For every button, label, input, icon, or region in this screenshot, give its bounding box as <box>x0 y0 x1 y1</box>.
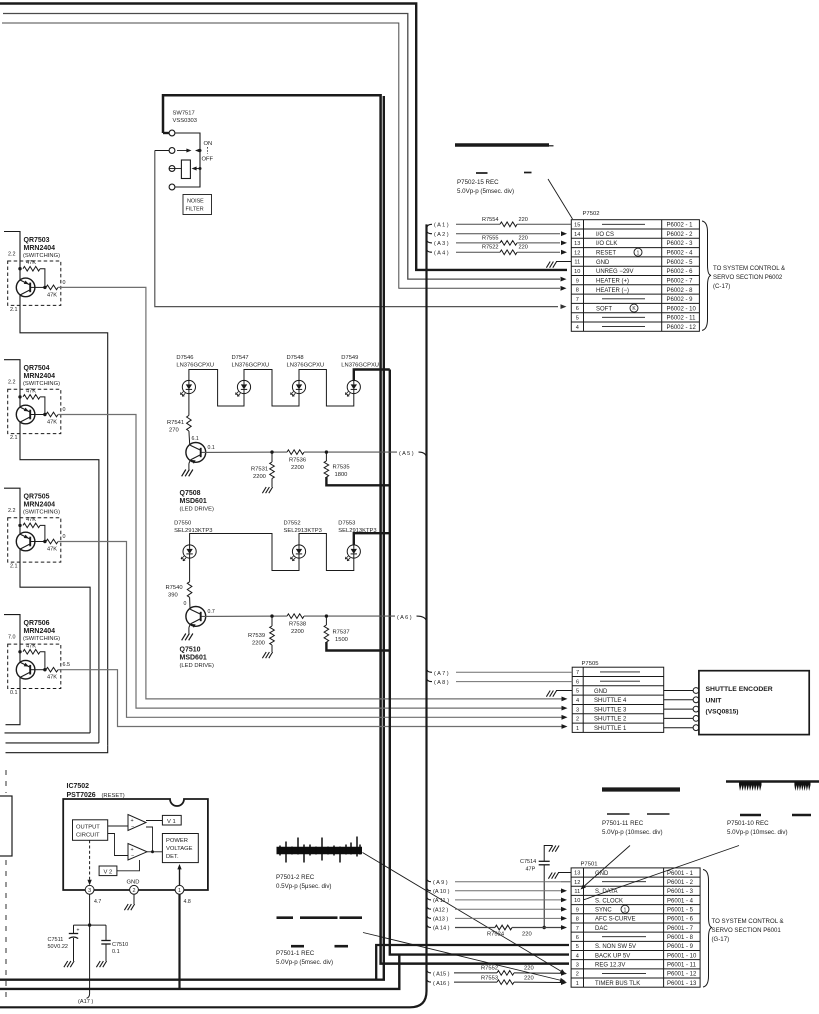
waveform P7501-10 REC trace <box>726 780 819 783</box>
wire QR7503 route exit left <box>6 745 108 752</box>
ground at IC pin 2 <box>133 894 135 904</box>
svg-text:TO SYSTEM CONTROL &: TO SYSTEM CONTROL & <box>713 265 785 272</box>
node A10 wire to P7501 <box>427 886 432 891</box>
svg-text:2200: 2200 <box>252 641 265 647</box>
svg-text:HEATER (+): HEATER (+) <box>596 278 629 284</box>
svg-text:4: 4 <box>576 698 579 704</box>
svg-text:5: 5 <box>576 944 579 950</box>
partial component box at left edge <box>0 796 12 856</box>
pin 2 <box>130 885 139 894</box>
svg-text:P6001 - 9: P6001 - 9 <box>667 944 694 950</box>
svg-text:D7552: D7552 <box>284 521 301 527</box>
resistor R7541 270 <box>188 394 190 416</box>
svg-text:4.8: 4.8 <box>184 899 191 905</box>
svg-text:GND: GND <box>127 880 140 886</box>
svg-text:( A 4 ): ( A 4 ) <box>434 250 449 256</box>
svg-text:220: 220 <box>519 245 528 251</box>
svg-text:S. CLOCK: S. CLOCK <box>595 898 623 904</box>
svg-text:47K: 47K <box>26 517 36 523</box>
svg-text:OFF: OFF <box>202 157 214 163</box>
svg-text:0.1: 0.1 <box>112 949 120 955</box>
svg-text:P7505: P7505 <box>582 661 600 667</box>
svg-text:GND: GND <box>596 260 610 266</box>
svg-text:I/O CLK: I/O CLK <box>596 241 617 247</box>
svg-text:0: 0 <box>63 407 66 413</box>
svg-text:D7546: D7546 <box>176 355 193 361</box>
transistor QR7504 symbol <box>16 405 35 424</box>
svg-text:10: 10 <box>574 898 580 904</box>
switch body <box>181 160 190 179</box>
svg-text:P6001 - 12: P6001 - 12 <box>667 972 697 978</box>
svg-text:MSD601: MSD601 <box>180 498 207 505</box>
node A3 wire to P7502 <box>427 239 433 243</box>
op-amp comparator 2 <box>128 844 147 861</box>
svg-text:LN376GCPXU: LN376GCPXU <box>232 363 270 369</box>
pin symbol RESET circled 1 <box>634 248 642 256</box>
resistor 47K base QR7504 <box>18 395 21 398</box>
svg-text:5.0Vp-p (5msec. div): 5.0Vp-p (5msec. div) <box>457 188 514 195</box>
svg-text:V 1: V 1 <box>167 819 176 825</box>
svg-text:VSS0303: VSS0303 <box>173 118 198 124</box>
svg-text:IC7502: IC7502 <box>67 783 90 790</box>
wire QR7503 base feed <box>4 232 20 281</box>
svg-text:(A12 ): (A12 ) <box>433 907 448 913</box>
wire QR7504 output to shuttle line <box>58 415 563 709</box>
svg-text:+: + <box>77 928 80 934</box>
annotation arrow P7501-1 to pin 1 <box>363 933 562 981</box>
svg-text:390: 390 <box>168 593 178 599</box>
wire switch box outline to P7501 pin 3 REG 12.3V (thick) <box>163 95 569 963</box>
dashed section boundary left edge <box>5 770 7 793</box>
svg-text:6: 6 <box>576 679 579 685</box>
svg-text:SERVO SECTION P6002: SERVO SECTION P6002 <box>713 274 783 281</box>
svg-text:R7536: R7536 <box>289 458 306 464</box>
svg-text:2.1: 2.1 <box>10 307 18 313</box>
op-amp comparator 1 <box>128 815 146 831</box>
svg-text:2200: 2200 <box>253 474 266 480</box>
wire QR7503 output to shuttle line <box>58 287 563 699</box>
svg-text:3: 3 <box>88 888 91 894</box>
svg-text:AFC S-CURVE: AFC S-CURVE <box>595 917 636 923</box>
svg-text:REG 12.3V: REG 12.3V <box>595 963 625 969</box>
wire R7535 to thick bus <box>326 477 389 485</box>
svg-text:47K: 47K <box>26 260 36 266</box>
resistor R7553 220 <box>454 981 497 983</box>
box V1 <box>162 815 181 825</box>
svg-text:P7501-1 REC: P7501-1 REC <box>276 950 315 957</box>
svg-text:13: 13 <box>574 871 580 877</box>
svg-text:−: − <box>131 854 134 860</box>
svg-text:220: 220 <box>524 975 534 981</box>
svg-text:SOFT: SOFT <box>596 306 612 312</box>
svg-text:P6002 - 8: P6002 - 8 <box>667 288 694 294</box>
resistor 47K output QR7504 <box>31 414 46 416</box>
svg-text:(A 10 ): (A 10 ) <box>433 889 450 895</box>
svg-text:11: 11 <box>574 889 580 895</box>
svg-text:P6002 - 6: P6002 - 6 <box>667 269 694 275</box>
svg-text:14: 14 <box>574 232 580 238</box>
waveform P7501-2 REC trace <box>277 837 363 863</box>
svg-text:R7539: R7539 <box>248 633 265 639</box>
svg-text:UNREG −29V: UNREG −29V <box>596 269 634 275</box>
node A14 wire to P7501 <box>427 923 432 928</box>
svg-text:( A 3 ): ( A 3 ) <box>434 241 449 247</box>
svg-text:QR7506: QR7506 <box>24 620 50 627</box>
resistor 47K base QR7506 <box>18 650 21 653</box>
ground at P7501 pin 13 <box>558 872 571 874</box>
wire backup jog bus <box>0 955 399 989</box>
svg-text:P6001 - 6: P6001 - 6 <box>667 917 694 923</box>
svg-text:P6001 - 11: P6001 - 11 <box>667 963 697 969</box>
svg-text:D7550: D7550 <box>174 521 191 527</box>
svg-text:2: 2 <box>576 717 579 723</box>
svg-text:7: 7 <box>576 297 579 303</box>
wire QR7505 output to shuttle line <box>58 542 563 718</box>
svg-text:( A 1 ): ( A 1 ) <box>434 223 449 229</box>
svg-text:R7541: R7541 <box>167 420 184 426</box>
svg-text:PST7026: PST7026 <box>67 792 96 799</box>
svg-text:QR7505: QR7505 <box>24 494 50 501</box>
svg-text:P6002 - 3: P6002 - 3 <box>667 241 694 247</box>
svg-text:47P: 47P <box>526 867 536 873</box>
svg-text:R7554: R7554 <box>482 217 498 223</box>
resistor R7540 390 <box>189 558 191 582</box>
svg-text:( A 8 ): ( A 8 ) <box>434 680 449 686</box>
svg-text:OUTPUT: OUTPUT <box>76 825 100 831</box>
svg-text:TO SYSTEM CONTROL &: TO SYSTEM CONTROL & <box>712 918 784 925</box>
resistor R7531 2200 <box>271 452 273 462</box>
svg-text:CIRCUIT: CIRCUIT <box>76 833 100 839</box>
switch toggle arrows <box>177 150 189 152</box>
wire bottom bus riser to P7501 pin 5 (thick) <box>376 945 569 980</box>
svg-text:D7547: D7547 <box>232 355 249 361</box>
svg-text:( A 2 ): ( A 2 ) <box>434 232 449 238</box>
wire IC pin 1 thick to backup bus <box>178 894 180 989</box>
svg-text:C7510: C7510 <box>112 942 128 948</box>
node A1 wire to P7502 <box>427 224 433 229</box>
svg-text:DET.: DET. <box>166 854 179 860</box>
resistor R7536 2200 <box>287 450 304 455</box>
svg-text:P6002 - 12: P6002 - 12 <box>667 325 697 331</box>
svg-text:2.1: 2.1 <box>10 435 18 441</box>
shuttle encoder unit box <box>699 671 809 735</box>
svg-text:V 2: V 2 <box>104 869 113 875</box>
pin 3 <box>85 885 94 894</box>
svg-text:SHUTTLE 3: SHUTTLE 3 <box>594 707 627 713</box>
svg-text:P6002 - 1: P6002 - 1 <box>667 223 694 229</box>
wires inside IC7502 <box>108 825 128 827</box>
svg-text:220: 220 <box>519 235 528 241</box>
svg-text:MRN2404: MRN2404 <box>24 245 56 252</box>
svg-text:47K: 47K <box>47 675 57 681</box>
svg-text:(A 11 ): (A 11 ) <box>433 898 449 904</box>
output circuit box <box>73 820 108 841</box>
svg-text:13: 13 <box>574 241 580 247</box>
noise filter box <box>183 195 212 215</box>
svg-text:1: 1 <box>637 250 640 256</box>
svg-text:4: 4 <box>576 325 579 331</box>
annotation arrow P7501-10 to pin 10 <box>584 846 739 900</box>
svg-text:(A17 ): (A17 ) <box>78 999 93 1005</box>
svg-text:POWER: POWER <box>166 838 188 844</box>
wire QR7505 base feed <box>4 488 20 534</box>
svg-text:( A 6 ): ( A 6 ) <box>397 615 412 621</box>
svg-text:(LED DRIVE): (LED DRIVE) <box>180 507 215 513</box>
resistor R7538 2200 <box>287 614 304 619</box>
svg-text:P6002 - 9: P6002 - 9 <box>667 297 694 303</box>
node A13 wire to P7501 <box>427 914 432 919</box>
svg-text:4.7: 4.7 <box>94 899 101 905</box>
wire QR7504 base feed <box>4 360 20 408</box>
svg-text:P7501-2 REC: P7501-2 REC <box>276 874 315 881</box>
svg-text:SERVO SECTION P6001: SERVO SECTION P6001 <box>712 927 782 934</box>
svg-text:12: 12 <box>574 250 580 256</box>
svg-text:15: 15 <box>574 223 580 229</box>
brace to system control (C-17) <box>702 221 711 330</box>
svg-text:P7502: P7502 <box>583 211 600 217</box>
op-amp IC7502 body <box>63 799 208 890</box>
svg-text:6: 6 <box>576 306 579 312</box>
pin 1 <box>175 885 184 894</box>
wire UNREG -29V bus (top thick, bends down to P7502 pin 10) <box>0 4 567 270</box>
capacitor C7511 50V0.22 <box>73 925 75 933</box>
wire net label bus (A-net spine) <box>0 224 427 1007</box>
svg-text:QR7504: QR7504 <box>24 365 50 372</box>
svg-text:0.1: 0.1 <box>208 445 215 451</box>
wire Q7510 base line (node A6) <box>202 615 288 617</box>
svg-text:LN376GCPXU: LN376GCPXU <box>341 363 379 369</box>
wire D7553 anode to thick bus <box>354 533 390 545</box>
svg-text:BACK UP 5V: BACK UP 5V <box>595 953 630 959</box>
svg-text:0: 0 <box>63 280 66 286</box>
svg-text:R7537: R7537 <box>333 630 350 636</box>
svg-text:R7524: R7524 <box>487 932 505 938</box>
pin symbol SOFT circled K <box>630 304 638 312</box>
svg-text:2.2: 2.2 <box>8 380 16 386</box>
svg-text:R7522: R7522 <box>482 245 498 251</box>
svg-text:RESET: RESET <box>596 251 616 257</box>
svg-text:2.1: 2.1 <box>10 564 18 570</box>
svg-text:HEATER (−): HEATER (−) <box>596 288 629 294</box>
connector P7505 table <box>572 667 664 732</box>
waveform P7501-1 REC trace <box>277 916 363 919</box>
svg-text:8: 8 <box>576 288 579 294</box>
connector P7502 / P6002 table <box>571 220 699 332</box>
svg-text:P6001 - 8: P6001 - 8 <box>667 935 694 941</box>
wires P7505 to shuttle encoder <box>664 690 694 692</box>
svg-text:P6001 - 10: P6001 - 10 <box>667 953 697 959</box>
node A7 <box>427 668 433 672</box>
transistor Q7510 MSD601 LED drive <box>186 607 206 627</box>
svg-text:SHUTTLE ENCODER: SHUTTLE ENCODER <box>706 686 773 693</box>
svg-text:9: 9 <box>576 278 579 284</box>
svg-text:7: 7 <box>576 926 579 932</box>
svg-text:SHUTTLE 4: SHUTTLE 4 <box>594 698 627 704</box>
resistor 47K base QR7503 <box>18 267 21 270</box>
resistor 47K base QR7505 <box>18 524 21 527</box>
node A15 <box>427 969 432 973</box>
box V2 <box>99 866 117 876</box>
svg-text:UNIT: UNIT <box>706 698 723 705</box>
svg-text:GND: GND <box>594 689 608 695</box>
svg-text:S. NON SW 5V: S. NON SW 5V <box>595 944 636 950</box>
svg-text:5.0Vp-p (10msec. div): 5.0Vp-p (10msec. div) <box>727 829 788 836</box>
svg-text:( A 7 ): ( A 7 ) <box>434 671 449 677</box>
power voltage det box <box>162 834 198 863</box>
resistor R7535 1800 <box>325 452 327 461</box>
svg-text:+: + <box>131 847 134 853</box>
resistor 47K output QR7506 <box>31 669 46 671</box>
svg-text:8: 8 <box>576 917 579 923</box>
svg-text:+: + <box>131 818 134 824</box>
svg-text:5.0Vp-p (10msec. div): 5.0Vp-p (10msec. div) <box>602 829 663 836</box>
annotation arrow P7501-11 to pin 11 <box>582 846 631 889</box>
wire pin 1 sense <box>179 869 181 886</box>
wire QR7505 route exit left <box>5 732 91 734</box>
svg-text:QR7503: QR7503 <box>24 237 50 244</box>
svg-text:P6002 - 5: P6002 - 5 <box>667 260 694 266</box>
svg-text:220: 220 <box>524 965 534 971</box>
svg-text:( A16 ): ( A16 ) <box>433 981 450 987</box>
transistor QR7505 symbol <box>16 532 35 551</box>
pin symbol SYNC circled 1 <box>621 905 629 913</box>
svg-text:SHUTTLE 1: SHUTTLE 1 <box>594 726 627 732</box>
svg-text:2.2: 2.2 <box>8 252 16 258</box>
svg-text:2.2: 2.2 <box>8 508 16 514</box>
svg-text:3: 3 <box>576 707 579 713</box>
svg-text:0.7: 0.7 <box>208 609 215 615</box>
svg-text:2200: 2200 <box>291 629 304 635</box>
dashed outline QR7504 <box>8 389 61 433</box>
svg-text:ON: ON <box>204 141 213 147</box>
wire switch pole <box>155 150 169 152</box>
svg-text:D7548: D7548 <box>287 355 304 361</box>
svg-text:−: − <box>131 824 134 830</box>
svg-text:6: 6 <box>576 935 579 941</box>
svg-text:270: 270 <box>169 428 179 434</box>
svg-text:P7501-11 REC: P7501-11 REC <box>602 820 644 827</box>
svg-text:(SWITCHING): (SWITCHING) <box>23 381 60 387</box>
svg-text:(A 14 ): (A 14 ) <box>433 926 450 932</box>
svg-text:P6001 - 7: P6001 - 7 <box>667 926 694 932</box>
svg-text:2: 2 <box>133 888 136 894</box>
svg-text:DAC: DAC <box>595 926 608 932</box>
svg-text:P7501-10 REC: P7501-10 REC <box>727 820 769 827</box>
node A2 wire to P7502 <box>427 230 433 234</box>
svg-text:SYNC: SYNC <box>595 908 612 914</box>
svg-text:R7540: R7540 <box>166 585 183 591</box>
svg-text:3: 3 <box>576 963 579 969</box>
node A12 wire to P7501 <box>427 905 432 910</box>
svg-text:VOLTAGE: VOLTAGE <box>166 846 193 852</box>
svg-text:2200: 2200 <box>291 465 304 471</box>
svg-text:47K: 47K <box>47 292 57 298</box>
svg-text:11: 11 <box>574 260 580 266</box>
svg-text:1500: 1500 <box>335 637 348 643</box>
wire IC pin 3 down <box>89 894 91 925</box>
svg-text:D7553: D7553 <box>338 521 355 527</box>
svg-text:(SWITCHING): (SWITCHING) <box>23 636 60 642</box>
svg-text:NOISE: NOISE <box>187 199 204 205</box>
svg-text:(SWITCHING): (SWITCHING) <box>23 253 60 259</box>
svg-text:LN376GCPXU: LN376GCPXU <box>176 363 214 369</box>
brace to system control (G-17) <box>703 870 712 988</box>
svg-text:R7555: R7555 <box>482 235 498 241</box>
svg-text:( A 9 ): ( A 9 ) <box>433 880 448 886</box>
dashed outline QR7503 <box>8 261 61 305</box>
node A16 <box>427 978 432 982</box>
wire QR7506 output to shuttle line <box>58 670 563 727</box>
svg-text:47K: 47K <box>26 388 36 394</box>
svg-text:SW7517: SW7517 <box>173 111 195 117</box>
svg-text:1: 1 <box>576 726 579 732</box>
svg-text:SHUTTLE 2: SHUTTLE 2 <box>594 717 627 723</box>
dashed outline QR7506 <box>8 644 61 688</box>
svg-text:P6001 - 13: P6001 - 13 <box>667 981 697 987</box>
svg-text:5: 5 <box>576 689 579 695</box>
svg-text:TIMER BUS TLK: TIMER BUS TLK <box>595 981 640 987</box>
svg-text:FILTER: FILTER <box>186 207 204 213</box>
node A11 wire to P7501 <box>427 895 432 900</box>
waveform P7502-15 REC trace <box>455 143 549 147</box>
svg-text:P7502-15 REC: P7502-15 REC <box>457 179 499 186</box>
svg-text:LN376GCPXU: LN376GCPXU <box>287 363 325 369</box>
wire SOFT net (from switch to P7502 pin 6) <box>155 151 558 307</box>
wire LED chain row 2 <box>190 534 299 571</box>
svg-text:0.1: 0.1 <box>10 690 18 696</box>
resistor 47K output QR7505 <box>31 541 46 543</box>
svg-text:(G-17): (G-17) <box>712 936 730 943</box>
svg-text:P7501: P7501 <box>581 861 598 867</box>
svg-text:1: 1 <box>178 888 181 894</box>
svg-text:(LED DRIVE): (LED DRIVE) <box>180 663 215 669</box>
resistor R7537 1500 <box>325 616 327 625</box>
svg-text:7.0: 7.0 <box>8 635 16 641</box>
svg-text:4: 4 <box>576 953 579 959</box>
wire LED chain row 1 <box>189 370 244 407</box>
svg-text:0: 0 <box>184 601 187 607</box>
resistor R7552 220 <box>454 972 497 974</box>
svg-text:P6002 - 10: P6002 - 10 <box>667 306 697 312</box>
wire R7537 to thick bus <box>326 642 389 651</box>
ground at P7502 pin 11 <box>556 261 571 263</box>
svg-text:47K: 47K <box>26 643 36 649</box>
svg-text:6.5: 6.5 <box>63 662 71 668</box>
svg-text:R7535: R7535 <box>333 465 350 471</box>
dashed outline QR7505 <box>8 518 61 562</box>
svg-text:I/O CS: I/O CS <box>596 232 614 238</box>
svg-text:R7538: R7538 <box>289 622 306 628</box>
svg-text:( A15 ): ( A15 ) <box>433 972 450 978</box>
svg-text:220: 220 <box>522 932 532 938</box>
wire thick LED supply bus (to P7501 pin 4 BACK UP 5V) <box>390 370 569 955</box>
node A8 <box>427 678 433 682</box>
svg-text:MSD601: MSD601 <box>180 655 207 662</box>
svg-text:P6001 - 2: P6001 - 2 <box>667 880 694 886</box>
svg-text:(C-17): (C-17) <box>713 283 730 290</box>
svg-text:1800: 1800 <box>335 472 348 478</box>
svg-text:Q7510: Q7510 <box>180 647 201 654</box>
svg-text:47K: 47K <box>47 420 57 426</box>
svg-text:P6001 - 3: P6001 - 3 <box>667 889 694 895</box>
svg-text:P6002 - 7: P6002 - 7 <box>667 278 694 284</box>
annotation arrow P7501-2 to pin 2 <box>363 853 562 972</box>
svg-text:D7549: D7549 <box>341 355 358 361</box>
svg-text:6.1: 6.1 <box>192 436 199 442</box>
svg-text:0: 0 <box>63 534 66 540</box>
svg-text:P6001 - 1: P6001 - 1 <box>667 871 694 877</box>
svg-text:10: 10 <box>574 269 580 275</box>
